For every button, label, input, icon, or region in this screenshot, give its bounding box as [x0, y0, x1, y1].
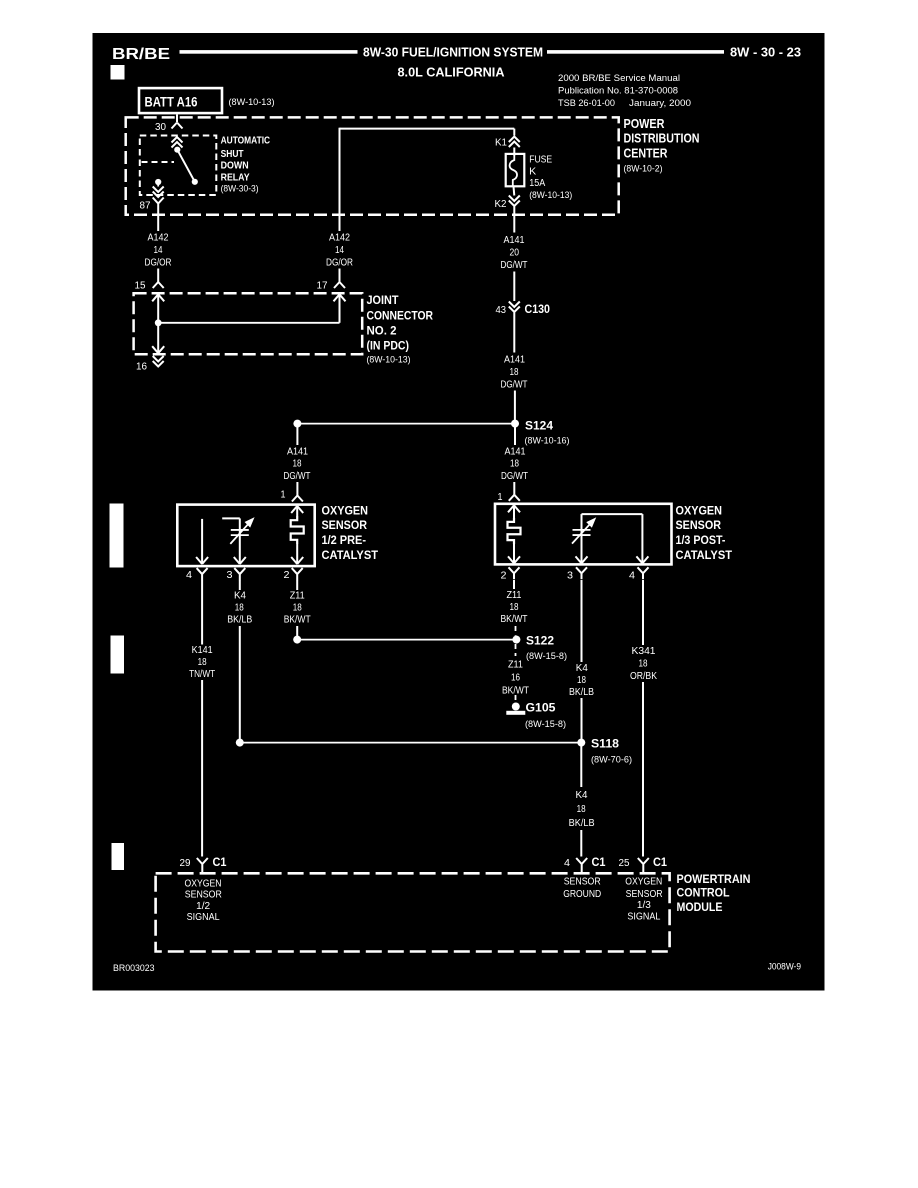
svg-text:18: 18 [510, 459, 519, 470]
svg-text:(8W-10-13): (8W-10-13) [229, 97, 275, 108]
svg-text:C1: C1 [653, 855, 667, 869]
svg-text:A141: A141 [504, 355, 525, 366]
joint connector pin 16 arrowhead [152, 346, 164, 353]
svg-text:15: 15 [135, 281, 146, 292]
sensor 1/3 heater pin 2 arrowhead [508, 556, 520, 563]
wire relay 87 down to A142 [157, 210, 159, 232]
header rule left [180, 51, 357, 54]
wire K4 right mid segment [581, 698, 583, 743]
sensor 1/2 pin 4 arrowhead [196, 557, 208, 564]
wire fuse to K2 [513, 187, 516, 196]
wire K4 right upper segment [581, 580, 583, 662]
power distribution center dashed box [126, 117, 619, 214]
sensor 1/3 sensing element top link [582, 513, 643, 515]
svg-text:43: 43 [496, 305, 507, 316]
svg-text:OXYGEN: OXYGEN [625, 876, 662, 888]
svg-text:3: 3 [227, 570, 233, 581]
wire A141 to splice S124 [514, 391, 516, 422]
svg-text:1/3: 1/3 [637, 899, 651, 911]
svg-text:18: 18 [293, 603, 302, 614]
svg-text:Z11: Z11 [507, 590, 522, 601]
sensor 1/2 sensing element symbol [231, 529, 249, 531]
svg-text:C130: C130 [525, 304, 551, 316]
svg-text:(8W-10-16): (8W-10-16) [525, 436, 570, 447]
svg-text:DOWN: DOWN [221, 159, 249, 171]
pin 16 double chevron [153, 356, 164, 367]
svg-text:DG/WT: DG/WT [501, 471, 528, 482]
svg-text:14: 14 [335, 245, 344, 256]
relay pin 30 terminal double chevron [172, 137, 183, 148]
svg-text:A142: A142 [148, 233, 169, 244]
svg-text:OXYGEN: OXYGEN [322, 506, 369, 518]
wire Z11 to splice S122 [297, 639, 516, 641]
svg-text:SHUT: SHUT [221, 148, 244, 160]
joint connector bus wire [158, 322, 339, 324]
wire K2 down to A141 [513, 207, 515, 233]
svg-text:17: 17 [317, 281, 328, 292]
svg-text:A141: A141 [504, 235, 525, 246]
splice S124 left terminal dot [293, 420, 301, 428]
left margin block middle [111, 636, 124, 673]
svg-text:S118: S118 [591, 739, 620, 751]
svg-text:8.0L CALIFORNIA: 8.0L CALIFORNIA [398, 66, 505, 80]
svg-text:BK/WT: BK/WT [501, 614, 528, 625]
svg-text:29: 29 [180, 858, 191, 869]
wire Z11 dashed segment above S122 [515, 626, 517, 636]
wire A142 to joint connector pin 15 [157, 269, 159, 283]
wire K4 left upper segment [239, 580, 241, 590]
splice S124 dot [511, 420, 519, 428]
joint connector pin 17 arrowhead [334, 294, 346, 301]
pin 17 connector chevron [334, 282, 345, 288]
svg-text:BK/LB: BK/LB [569, 818, 595, 829]
svg-text:K2: K2 [495, 199, 507, 210]
splice S118 dot [577, 739, 585, 747]
svg-text:20: 20 [510, 248, 520, 259]
sensor 1/2 sensing element stub [222, 517, 240, 519]
relay terminal 87 double chevron [153, 187, 164, 198]
wire C130 to A141 18 [513, 313, 515, 353]
joint connector pin 17 riser [339, 295, 341, 323]
wire BATT A16 to relay pin 30 [176, 115, 178, 123]
svg-text:8W-30 FUEL/IGNITION SYSTEM: 8W-30 FUEL/IGNITION SYSTEM [363, 46, 543, 60]
svg-text:BK/LB: BK/LB [569, 687, 594, 698]
svg-text:18: 18 [577, 804, 586, 815]
svg-text:SENSOR: SENSOR [322, 520, 368, 532]
svg-text:Z11: Z11 [290, 591, 305, 602]
automatic shut down relay dashed box [140, 136, 217, 196]
diagram panel [92, 33, 825, 992]
ground G105 symbol [512, 703, 520, 711]
svg-text:(8W-15-8): (8W-15-8) [526, 651, 567, 662]
powertrain control module dashed box [156, 873, 670, 951]
fuse K box [506, 154, 525, 186]
header margin square [111, 66, 124, 80]
sensor 1/2 heater circuit pin 1 arrowhead [291, 506, 303, 513]
header rule right [548, 51, 724, 54]
svg-text:18: 18 [510, 602, 519, 613]
svg-text:4: 4 [186, 570, 192, 581]
svg-text:K1: K1 [495, 138, 507, 149]
svg-text:14: 14 [154, 245, 163, 256]
svg-text:CONTROL: CONTROL [677, 886, 730, 900]
sensor 1/3 heater element [508, 518, 521, 544]
svg-text:(8W-30-3): (8W-30-3) [221, 183, 259, 194]
svg-text:DG/OR: DG/OR [326, 258, 353, 269]
svg-text:CONNECTOR: CONNECTOR [367, 310, 434, 322]
relay terminal 87 contact [155, 179, 161, 185]
left margin block lower [112, 844, 124, 870]
svg-text:BK/WT: BK/WT [502, 686, 529, 697]
svg-text:FUSE: FUSE [529, 155, 552, 166]
junction dot K4 to S118 [236, 739, 244, 747]
svg-text:(IN PDC): (IN PDC) [367, 341, 410, 353]
pin 4 connector chevron left sensor [197, 568, 208, 580]
wire K4 below S118 [580, 744, 582, 787]
wire K341 upper segment [642, 580, 644, 645]
battery feed box BATT A16 [139, 88, 222, 113]
svg-text:RELAY: RELAY [221, 172, 250, 184]
svg-text:K4: K4 [576, 790, 588, 801]
svg-text:Publication No. 81-370-0008: Publication No. 81-370-0008 [558, 86, 678, 97]
svg-text:DG/WT: DG/WT [501, 260, 528, 271]
svg-text:SIGNAL: SIGNAL [627, 911, 660, 923]
splice S122 dot [512, 636, 520, 644]
svg-text:BK/LB: BK/LB [227, 615, 252, 626]
svg-text:TN/WT: TN/WT [189, 669, 215, 680]
relay armature [177, 150, 195, 182]
svg-text:DISTRIBUTION: DISTRIBUTION [624, 131, 700, 145]
pin 25 connector chevron C1 [638, 858, 649, 873]
svg-text:C1: C1 [213, 855, 227, 869]
svg-text:25: 25 [619, 858, 630, 869]
wire S124 left branch down [296, 425, 298, 445]
pin 4 connector chevron C1 [576, 858, 587, 873]
svg-text:Z11: Z11 [508, 660, 523, 671]
wire K341 lower segment [642, 682, 644, 857]
svg-text:16: 16 [511, 673, 520, 684]
svg-text:NO. 2: NO. 2 [367, 326, 397, 338]
svg-text:OR/BK: OR/BK [630, 671, 657, 682]
svg-text:A142: A142 [329, 233, 350, 244]
relay moving contact [192, 179, 198, 185]
svg-text:CATALYST: CATALYST [322, 550, 379, 562]
svg-text:GROUND: GROUND [563, 888, 601, 900]
svg-text:18: 18 [510, 367, 519, 378]
oxygen sensor 1/2 pre-catalyst box [177, 505, 314, 566]
connector C130 double chevron [509, 302, 520, 313]
svg-text:G105: G105 [526, 703, 557, 715]
svg-text:18: 18 [293, 459, 302, 470]
svg-text:(8W-10-13): (8W-10-13) [529, 190, 572, 201]
wire K4 left lower segment [239, 626, 241, 743]
svg-text:A141: A141 [505, 446, 526, 457]
svg-text:MODULE: MODULE [677, 900, 723, 914]
svg-text:8W - 30 - 23: 8W - 30 - 23 [730, 46, 801, 60]
wire K4 to splice S118 [240, 742, 582, 744]
svg-text:BATT A16: BATT A16 [145, 95, 198, 110]
sensor 1/3 pin 3 arrowhead [576, 556, 588, 563]
svg-text:BR003023: BR003023 [113, 963, 155, 974]
svg-text:S122: S122 [526, 636, 554, 648]
svg-text:18: 18 [235, 603, 244, 614]
svg-text:TSB 26-01-00: TSB 26-01-00 [558, 98, 615, 109]
wire K1 to fuse [513, 148, 515, 157]
wire Z11 dashed segment below S122 [515, 644, 517, 656]
wire Z11 right upper segment [513, 580, 515, 589]
svg-text:(8W-10-13): (8W-10-13) [367, 355, 411, 366]
left margin block upper [110, 504, 123, 567]
svg-text:CENTER: CENTER [624, 147, 668, 161]
pin 3 connector chevron left sensor [234, 568, 245, 580]
svg-text:K4: K4 [234, 591, 246, 602]
pin 4 connector chevron right sensor [638, 567, 649, 579]
svg-text:30: 30 [155, 122, 166, 133]
pin 87 connector chevron [153, 198, 164, 210]
svg-text:POWER: POWER [624, 117, 665, 131]
svg-text:18: 18 [577, 675, 586, 686]
sensor 1/2 heater pin 2 arrowhead [291, 557, 303, 564]
wire K141 upper segment [201, 580, 203, 645]
fuse K element [510, 156, 517, 187]
svg-text:15A: 15A [529, 178, 545, 189]
wire Z11 dashed segment to G105 [515, 695, 517, 701]
svg-text:1/2 PRE-: 1/2 PRE- [322, 535, 367, 547]
wire to O2 sensor 1/3 pin 1 [513, 482, 515, 495]
svg-text:18: 18 [639, 659, 648, 670]
joint connector no. 2 dashed box [134, 293, 363, 354]
wire Z11 left lower segment [296, 626, 298, 640]
pin K2 double chevron [509, 196, 520, 207]
svg-text:SENSOR: SENSOR [676, 520, 722, 532]
junction dot Z11 to S122 [293, 636, 301, 644]
sensor 1/2 heater element [291, 516, 304, 544]
relay coil partition dashes [142, 161, 175, 163]
wire S124 right branch down [514, 425, 516, 445]
svg-text:CATALYST: CATALYST [676, 550, 733, 562]
svg-text:(8W-15-8): (8W-15-8) [525, 719, 566, 730]
wire A142 to joint connector pin 17 [339, 269, 341, 283]
pin 29 connector chevron C1 [197, 858, 208, 873]
svg-text:BR/BE: BR/BE [112, 46, 170, 63]
wire PDC feed horizontal [340, 128, 515, 130]
svg-text:3: 3 [567, 571, 573, 582]
svg-text:A141: A141 [287, 446, 308, 457]
svg-text:SENSOR: SENSOR [185, 889, 222, 901]
sensor 1/2 pin 3 arrowhead [234, 557, 246, 564]
wire K1 riser [513, 129, 515, 136]
pin 2 connector chevron left sensor [292, 568, 303, 580]
sensor 1/3 reference line [641, 514, 643, 563]
svg-text:S124: S124 [525, 421, 554, 433]
svg-text:2000 BR/BE Service Manual: 2000 BR/BE Service Manual [558, 73, 680, 84]
svg-text:K141: K141 [192, 645, 213, 656]
sensor 1/2 signal return line [201, 519, 203, 564]
svg-text:1: 1 [281, 490, 286, 501]
sensor 1/3 heater pin 1 arrowhead [508, 505, 520, 512]
svg-text:JOINT: JOINT [367, 295, 399, 307]
svg-text:16: 16 [136, 362, 147, 373]
svg-text:DG/OR: DG/OR [145, 258, 172, 269]
svg-text:POWERTRAIN: POWERTRAIN [677, 872, 751, 886]
svg-text:SIGNAL: SIGNAL [187, 911, 220, 923]
wire A141 to C130 [513, 272, 515, 302]
svg-text:18: 18 [198, 657, 207, 668]
svg-text:1: 1 [498, 492, 503, 503]
svg-text:SENSOR: SENSOR [564, 876, 601, 888]
svg-text:4: 4 [564, 858, 570, 869]
joint connector pin 15 arrowhead [152, 294, 164, 301]
wire to O2 sensor 1/2 pin 1 [296, 482, 298, 496]
wire K4 to PCM pin 4 [580, 830, 582, 857]
svg-text:BK/WT: BK/WT [284, 615, 311, 626]
relay armature pivot [174, 147, 180, 153]
splice S124 wire [297, 423, 515, 425]
svg-text:(8W-10-2): (8W-10-2) [624, 164, 663, 175]
sensor 1/3 pin 4 arrowhead [636, 556, 648, 563]
svg-text:AUTOMATIC: AUTOMATIC [221, 135, 271, 147]
svg-text:2: 2 [501, 571, 507, 582]
joint connector bus junction [155, 319, 162, 326]
pin 3 connector chevron right sensor [576, 567, 587, 579]
svg-text:4: 4 [629, 571, 635, 582]
svg-text:J008W-9: J008W-9 [768, 962, 801, 973]
wire K141 lower segment [201, 680, 203, 857]
svg-text:K: K [529, 167, 536, 178]
pin 1 connector chevron right sensor [509, 495, 520, 501]
joint connector pin 16 drop wire [157, 323, 159, 353]
pin 2 connector chevron right sensor [509, 567, 520, 579]
svg-text:C1: C1 [592, 855, 606, 869]
svg-text:DG/WT: DG/WT [284, 471, 311, 482]
svg-text:OXYGEN: OXYGEN [676, 506, 723, 518]
svg-text:2: 2 [284, 570, 290, 581]
svg-text:January, 2000: January, 2000 [629, 98, 691, 109]
svg-text:DG/WT: DG/WT [501, 380, 528, 391]
svg-text:K4: K4 [576, 663, 588, 674]
pin K1 double chevron [509, 137, 520, 148]
svg-text:87: 87 [140, 201, 151, 212]
oxygen sensor 1/3 post-catalyst box [495, 504, 672, 565]
svg-text:1/3 POST-: 1/3 POST- [676, 535, 726, 547]
svg-text:K341: K341 [632, 646, 656, 657]
svg-text:(8W-70-6): (8W-70-6) [591, 755, 632, 766]
wire Z11 left upper segment [296, 580, 298, 590]
pin 30 connector chevron [172, 123, 183, 129]
sensor 1/3 sensing element symbol [573, 529, 591, 531]
pin 15 connector chevron [153, 282, 164, 288]
pin 1 connector chevron left sensor [292, 496, 303, 502]
